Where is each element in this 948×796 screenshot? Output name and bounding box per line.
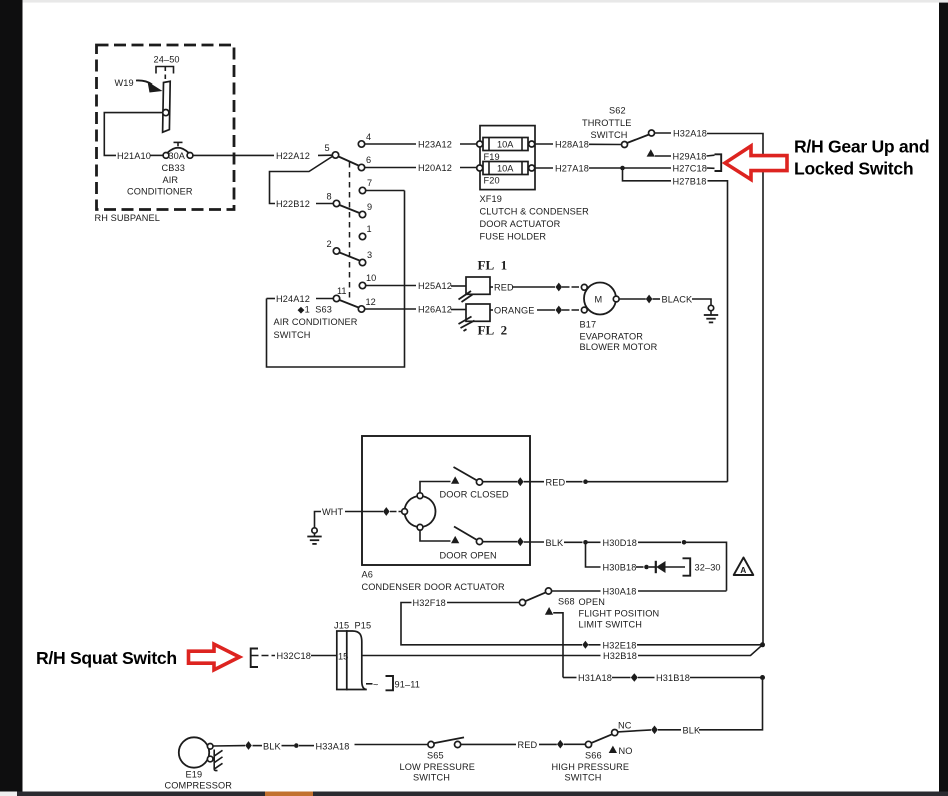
svg-text:BLK: BLK — [546, 538, 564, 548]
wire RED — [490, 286, 493, 288]
squat switch bracket — [251, 649, 258, 668]
svg-text:R/H Gear Up and: R/H Gear Up and — [794, 137, 929, 157]
svg-text:H24A12: H24A12 — [276, 294, 310, 304]
svg-text:J15 P15: J15 P15 — [334, 621, 371, 631]
S63 outline box — [267, 191, 405, 368]
switch S63 contact 5 — [332, 152, 338, 158]
svg-text:H27B18: H27B18 — [673, 177, 707, 187]
wire H21A10 to breaker — [150, 154, 163, 156]
svg-text:H22B12: H22B12 — [276, 199, 310, 209]
NO throw marker — [609, 746, 617, 753]
contact 6 — [358, 164, 364, 170]
red arrow squat switch — [189, 644, 240, 670]
svg-text:91–11: 91–11 — [395, 680, 420, 690]
svg-text:H28A18: H28A18 — [555, 140, 589, 150]
branch wire H22A12 to H22B12 — [270, 156, 334, 204]
S68 blade — [525, 592, 546, 601]
dashed wire to H32C18 — [252, 655, 276, 657]
svg-text:A6: A6 — [362, 570, 373, 580]
svg-text:8: 8 — [327, 192, 332, 202]
compressor E19 — [179, 737, 209, 767]
W19 pointer arrow — [136, 80, 152, 84]
svg-text:H27A18: H27A18 — [555, 164, 589, 174]
svg-text:DOOR ACTUATOR: DOOR ACTUATOR — [480, 219, 561, 229]
wire H22A12 to contact 5 — [318, 154, 333, 156]
svg-text:F20: F20 — [484, 176, 500, 186]
wire H27B18 — [623, 168, 672, 181]
wire contact 4 to H23A12 — [365, 143, 416, 145]
svg-text:S66: S66 — [585, 751, 602, 761]
wire F19 to H28A18 — [535, 143, 553, 145]
svg-text:H29A18: H29A18 — [673, 152, 707, 162]
wire down to BLK S66 — [699, 678, 763, 730]
left black frame bar — [0, 0, 23, 792]
svg-text:E19: E19 — [186, 770, 203, 780]
door open blade — [454, 527, 477, 541]
svg-text:H30D18: H30D18 — [603, 538, 637, 548]
svg-text:NC: NC — [618, 721, 632, 731]
svg-text:M: M — [595, 295, 603, 305]
junction BLK/H30D18 — [583, 540, 588, 545]
wire contact 6 to H20A12 — [365, 167, 416, 169]
fuse holder XF19 box — [480, 126, 535, 190]
wire breaker to H22A12 — [193, 154, 274, 156]
wire H22B12 to contact 8 — [316, 203, 333, 205]
wire H29A18 — [655, 155, 671, 157]
svg-text:RH SUBPANEL: RH SUBPANEL — [95, 213, 160, 223]
svg-text:COMPRESSOR: COMPRESSOR — [165, 781, 233, 791]
throttle switch S62 — [622, 142, 628, 148]
splice diamond — [556, 306, 563, 315]
svg-text:XF19: XF19 — [480, 194, 502, 204]
blade 11-12 — [340, 300, 359, 308]
off-page bracket 91-11 — [386, 676, 394, 690]
svg-text:12: 12 — [366, 297, 376, 307]
wire H30B18 — [586, 542, 601, 567]
svg-text:H32E18: H32E18 — [603, 640, 637, 650]
svg-text:F19: F19 — [484, 152, 500, 162]
contact 8 — [333, 200, 339, 206]
svg-text:CB33: CB33 — [162, 163, 185, 173]
wire to door open switch — [420, 530, 451, 541]
svg-text:ORANGE: ORANGE — [494, 306, 535, 316]
svg-text:SWITCH: SWITCH — [591, 130, 628, 140]
svg-text:~: ~ — [373, 680, 378, 690]
dashed wire to W19 busbar — [164, 67, 166, 82]
flight position limit switch S68 contact — [545, 588, 551, 594]
wire H32A18 — [655, 132, 672, 134]
svg-text:6: 6 — [366, 155, 371, 165]
contact 3 — [359, 259, 365, 265]
filter FL2 — [466, 304, 490, 321]
wire H31A18 — [563, 677, 577, 679]
svg-text:H33A18: H33A18 — [316, 741, 350, 751]
svg-text:THROTTLE: THROTTLE — [582, 118, 631, 128]
contact 9 — [359, 211, 365, 217]
svg-text:15: 15 — [338, 651, 348, 661]
svg-text:11: 11 — [337, 286, 347, 296]
svg-text:H21A10: H21A10 — [117, 151, 151, 161]
wire H32F18 — [447, 602, 519, 604]
svg-text:A: A — [740, 565, 746, 575]
svg-text:H30B18: H30B18 — [603, 563, 637, 573]
svg-text:DOOR CLOSED: DOOR CLOSED — [440, 490, 509, 500]
low pressure switch S65 — [428, 741, 434, 747]
svg-text:1: 1 — [367, 224, 372, 234]
gear-up switch triangle — [647, 149, 655, 156]
fuse F20 10A — [483, 162, 528, 175]
wire ORANGE — [490, 309, 493, 311]
svg-text:H20A12: H20A12 — [418, 163, 452, 173]
svg-text:7: 7 — [367, 178, 372, 188]
blower motor B17 — [584, 283, 616, 315]
FL1 shield hatches — [459, 291, 472, 300]
svg-text:BLK: BLK — [263, 741, 281, 751]
svg-text:NO: NO — [619, 746, 633, 756]
svg-text:CLUTCH & CONDENSER: CLUTCH & CONDENSER — [480, 207, 590, 217]
svg-text:S65: S65 — [427, 751, 444, 761]
RH SUBPANEL dashed box — [97, 45, 235, 210]
svg-text:S62: S62 — [609, 106, 626, 116]
wire RED out of A6 — [483, 481, 517, 483]
svg-text:WHT: WHT — [322, 507, 344, 517]
svg-text:S68: S68 — [558, 597, 575, 607]
fuse F19 10A — [483, 138, 528, 151]
circuit breaker CB33 30A — [163, 153, 169, 159]
wire RED compressor row — [461, 743, 516, 745]
wire from W19 node to H21A10 — [104, 113, 163, 156]
svg-text:FUSE HOLDER: FUSE HOLDER — [480, 232, 547, 242]
svg-text:H31A18: H31A18 — [578, 673, 612, 683]
svg-text:3: 3 — [367, 250, 372, 260]
filter FL1 — [466, 277, 490, 294]
gear-up switch bracket — [715, 154, 722, 171]
wire H27A18 from F20 — [535, 167, 553, 169]
ground for blower — [708, 305, 713, 310]
svg-text:BLK: BLK — [683, 725, 701, 735]
svg-text:AIR CONDITIONER: AIR CONDITIONER — [274, 317, 358, 327]
diode CR — [655, 561, 657, 573]
splice diamond — [556, 283, 563, 292]
svg-text:FLIGHT POSITION: FLIGHT POSITION — [579, 609, 660, 619]
svg-text:30A: 30A — [169, 151, 186, 161]
svg-text:24–50: 24–50 — [154, 55, 180, 65]
door closed blade — [454, 467, 478, 481]
svg-text:B17: B17 — [580, 320, 597, 330]
wire H33A18 — [355, 744, 429, 746]
svg-text:Locked Switch: Locked Switch — [794, 159, 913, 179]
red arrow R/H gear up — [725, 146, 787, 180]
contact 1 — [359, 233, 365, 239]
svg-text:4: 4 — [366, 132, 371, 142]
clutch symbol — [214, 750, 217, 771]
svg-text:HIGH PRESSURE: HIGH PRESSURE — [552, 762, 630, 772]
svg-text:FL 1: FL 1 — [478, 258, 508, 273]
svg-text:OPEN: OPEN — [579, 597, 606, 607]
svg-text:RED: RED — [518, 740, 538, 750]
FL2 shield hatches — [459, 317, 472, 325]
svg-text:H22A12: H22A12 — [276, 151, 310, 161]
wire WHT — [315, 512, 322, 528]
svg-text:CONDENSER DOOR ACTUATOR: CONDENSER DOOR ACTUATOR — [362, 582, 506, 592]
wire contact 7 to box right edge — [366, 190, 405, 192]
svg-text:10: 10 — [366, 273, 376, 283]
busbar W19 — [163, 81, 171, 132]
door closed switch triangle — [451, 476, 459, 483]
svg-text:AIR: AIR — [163, 175, 179, 185]
svg-text:◆1 S63: ◆1 S63 — [298, 305, 332, 315]
contact 2 — [333, 248, 339, 254]
S68 throw triangle — [545, 607, 553, 615]
svg-text:SWITCH: SWITCH — [274, 330, 311, 340]
svg-text:FL 2: FL 2 — [478, 323, 508, 338]
blade 8-9 — [340, 205, 360, 213]
svg-text:10A: 10A — [497, 164, 514, 174]
svg-text:R/H Squat Switch: R/H Squat Switch — [36, 648, 177, 668]
bottom dark taskbar — [17, 792, 948, 796]
contact 12 — [358, 306, 364, 312]
wire from triangle down to H31A18 — [553, 613, 563, 678]
svg-text:CONDITIONER: CONDITIONER — [127, 186, 193, 196]
junction H32E18/H32B18 node — [760, 642, 765, 647]
svg-text:BLOWER MOTOR: BLOWER MOTOR — [580, 342, 658, 352]
svg-text:RED: RED — [546, 478, 566, 488]
dash-dot to off-page 91-11 — [366, 683, 373, 685]
off-page bracket 32-30 — [683, 558, 691, 575]
wire to door closed switch — [420, 482, 451, 493]
svg-text:H32B18: H32B18 — [603, 651, 637, 661]
svg-text:LIMIT SWITCH: LIMIT SWITCH — [579, 620, 643, 630]
svg-text:LOW PRESSURE: LOW PRESSURE — [400, 762, 475, 772]
svg-text:H25A12: H25A12 — [418, 281, 452, 291]
svg-text:H31B18: H31B18 — [656, 673, 690, 683]
svg-text:32–30: 32–30 — [695, 563, 721, 573]
splice H32F18/H32E18 — [582, 641, 588, 649]
svg-text:2: 2 — [327, 239, 332, 249]
wire H24A12 row — [267, 298, 276, 300]
svg-text:RED: RED — [494, 283, 514, 293]
wire H32C18 to connector — [311, 655, 337, 657]
contact 4 — [358, 141, 364, 147]
svg-text:SWITCH: SWITCH — [413, 773, 450, 783]
svg-text:10A: 10A — [497, 140, 514, 150]
ground for WHT — [312, 528, 317, 533]
svg-text:9: 9 — [367, 202, 372, 212]
wire H30A18 — [552, 590, 601, 592]
door open switch triangle — [451, 536, 459, 543]
taskbar orange segment — [265, 792, 313, 796]
svg-text:H26A12: H26A12 — [418, 305, 452, 315]
wire BLACK — [619, 298, 646, 300]
svg-text:5: 5 — [325, 143, 330, 153]
blade 2-3 — [340, 253, 360, 261]
svg-text:EVAPORATOR: EVAPORATOR — [580, 332, 644, 342]
node on W19 — [163, 110, 169, 116]
svg-text:H23A12: H23A12 — [418, 140, 452, 150]
svg-text:DOOR OPEN: DOOR OPEN — [440, 551, 497, 561]
svg-text:BLACK: BLACK — [662, 295, 693, 305]
bottom-left light corner — [0, 792, 17, 796]
contact 10 — [359, 282, 365, 288]
contact 11 — [333, 295, 339, 301]
top gray strip — [23, 0, 948, 3]
contact 7 — [359, 187, 365, 193]
blade 5-6 — [339, 157, 359, 166]
junction H27A18/H27B18 — [620, 166, 625, 171]
wire H32B18 from connector — [362, 655, 601, 657]
warning triangle A — [734, 558, 754, 576]
svg-text:H32F18: H32F18 — [413, 598, 446, 608]
high pressure switch S66 — [612, 730, 618, 736]
condenser door actuator A6 box — [362, 436, 530, 565]
svg-text:H32A18: H32A18 — [673, 129, 707, 139]
wire BLK out of A6 — [483, 541, 517, 543]
svg-text:H32C18: H32C18 — [277, 651, 311, 661]
svg-text:W19: W19 — [115, 78, 134, 88]
svg-text:H30A18: H30A18 — [603, 587, 637, 597]
svg-text:H27C18: H27C18 — [673, 164, 707, 174]
connector bracket 24-50 — [156, 67, 174, 74]
wire contact 12 to H26A12 — [365, 308, 416, 310]
right black frame bar — [939, 3, 948, 792]
svg-text:SWITCH: SWITCH — [565, 773, 602, 783]
wire contact 10 to H25A12 — [366, 285, 416, 287]
S63 mechanical link dashed — [349, 162, 351, 302]
actuator motor — [405, 496, 436, 527]
